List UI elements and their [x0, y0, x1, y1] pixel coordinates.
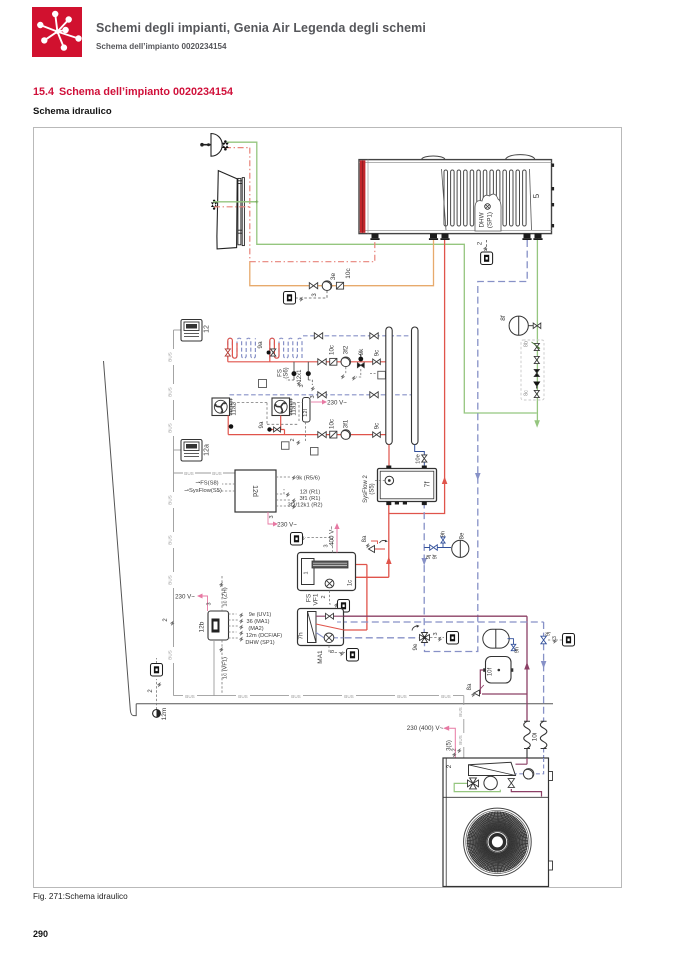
- svg-text:10c: 10c: [345, 268, 352, 279]
- svg-text:BUS: BUS: [168, 650, 173, 659]
- svg-text:BUS: BUS: [168, 387, 173, 396]
- svg-text:⇀FS(S8): ⇀FS(S8): [195, 481, 218, 487]
- outdoor circulation pump: [523, 769, 533, 779]
- pump 10c DHW circulation: [322, 281, 332, 291]
- wire green radiator branch: [213, 201, 257, 203]
- check valve 10c: [336, 282, 343, 289]
- svg-text:12b: 12b: [199, 621, 206, 632]
- circuit A blue return line: [303, 335, 412, 337]
- svg-text:1c (VF1): 1c (VF1): [223, 657, 229, 679]
- wire blue MA1 pump to 9e: [334, 637, 420, 639]
- svg-text:DHW (SP1): DHW (SP1): [245, 640, 274, 646]
- tube1 to 7f red: [388, 445, 390, 466]
- floor heating coil 9a: [228, 338, 256, 358]
- svg-text:8f: 8f: [500, 315, 507, 321]
- tank feet/stubs: [372, 234, 379, 239]
- svg-text:BUS: BUS: [168, 352, 173, 361]
- purge valve 8a: [373, 548, 386, 550]
- svg-text:7h: 7h: [298, 632, 305, 640]
- radiator panel: [217, 171, 237, 249]
- svg-text:12x1: 12x1: [297, 369, 303, 383]
- 12d left sensor wires: [218, 484, 235, 491]
- 7f flow sensor: [385, 476, 394, 485]
- eBUS horizontal to 12d: [174, 472, 236, 474]
- command box a (tank sensor): [481, 252, 493, 265]
- svg-text:3: 3: [269, 515, 275, 518]
- figure caption: [33, 892, 128, 901]
- MA1 internal pipes: [316, 615, 344, 617]
- separator tube 2: [412, 327, 419, 445]
- wire blue 7f to 9e valve: [423, 502, 425, 634]
- tank sensor cable: [486, 240, 488, 252]
- svg-text:(SP1): (SP1): [487, 212, 494, 228]
- svg-text:10e: 10e: [416, 454, 422, 464]
- valve: [534, 390, 539, 397]
- svg-text:12a: 12a: [204, 444, 211, 456]
- shower head: [200, 134, 222, 157]
- svg-text:12d: 12d: [251, 485, 258, 497]
- svg-text:3: 3: [207, 602, 213, 605]
- 12b sensor cable 1c: [221, 576, 223, 694]
- heat pump interface 7f: [386, 466, 391, 469]
- svg-text:9k: 9k: [358, 348, 365, 355]
- svg-text:3: 3: [433, 632, 439, 635]
- wire maroon condenser flow to outdoor unit: [316, 616, 527, 721]
- radiator valve: [211, 202, 217, 207]
- svg-text:(MA2): (MA2): [248, 626, 263, 632]
- radiator back tubes: [238, 178, 245, 246]
- room thermostat 12a: [174, 449, 182, 451]
- tube sensor box: [377, 370, 379, 372]
- logo: [32, 7, 82, 57]
- fan coil 11a1: [272, 398, 293, 416]
- svg-text:10f: 10f: [488, 667, 494, 676]
- wire green outdoor unit loop: [454, 783, 500, 791]
- tube2 to 7f blue with valve 10e: [415, 445, 425, 466]
- svg-text:BUS: BUS: [212, 471, 221, 476]
- svg-text:400 V~: 400 V~: [329, 526, 336, 546]
- svg-text:3f2: 3f2: [343, 345, 350, 354]
- svg-text:9c: 9c: [374, 423, 381, 430]
- fan coil control wiring: [233, 403, 303, 425]
- wire purple outdoor valve line: [511, 789, 541, 797]
- tank heat exchanger coil: [444, 170, 526, 226]
- svg-text:(S6): (S6): [284, 367, 290, 378]
- wiring centre 12b: [208, 611, 229, 640]
- svg-text:230 (400) V~: 230 (400) V~: [407, 725, 444, 732]
- wire red heat pump flow 7f riser: [317, 502, 389, 631]
- svg-text:7f: 7f: [425, 482, 432, 488]
- fan coil 11a2 connection: [227, 416, 229, 435]
- svg-text:36 (MA1): 36 (MA1): [246, 619, 269, 625]
- valve on coil 2 leg: [271, 349, 276, 356]
- svg-text:BUS: BUS: [185, 694, 194, 699]
- svg-text:(S5): (S5): [370, 483, 376, 494]
- svg-text:BUS: BUS: [184, 471, 193, 476]
- svg-text:3e: 3e: [330, 273, 337, 281]
- svg-text:8e: 8e: [460, 532, 466, 539]
- electric backup heater FS/VF1: [298, 553, 356, 591]
- svg-text:3: 3: [310, 395, 316, 398]
- eBUS vertical line: [173, 330, 175, 696]
- wall line: [104, 361, 137, 716]
- 12l control drop: [305, 422, 307, 441]
- hydraulic module MA1 (7h): [298, 609, 344, 646]
- svg-text:11a2: 11a2: [231, 402, 238, 416]
- MA1 control cable: [329, 646, 345, 653]
- header title: [96, 21, 426, 35]
- wire green cold water shower to tank: [227, 142, 537, 413]
- valve group circuit A: [318, 359, 326, 365]
- svg-text:BUS: BUS: [458, 707, 463, 716]
- svg-text:2: 2: [321, 595, 327, 598]
- valve 9j on return: [541, 636, 546, 644]
- wire pink 230V to outdoor unit: [449, 728, 455, 758]
- svg-text:9c: 9c: [374, 350, 381, 357]
- wire orange DHW warm water: [250, 240, 434, 286]
- svg-text:10c: 10c: [329, 345, 336, 355]
- expansion vessel 8e: [452, 540, 469, 557]
- fan coil 11a2: [212, 398, 233, 416]
- safety group 8b/8c box: [521, 340, 544, 400]
- svg-text:5: 5: [532, 193, 541, 198]
- eBUS drop to outdoor unit: [463, 696, 465, 758]
- svg-text:1c: 1c: [348, 580, 354, 586]
- 12b to eBUS: [213, 640, 215, 696]
- controller 12l: [303, 398, 311, 423]
- valve: [534, 356, 539, 363]
- svg-text:12l (R1): 12l (R1): [300, 490, 321, 496]
- wire blue tank coil return: [425, 240, 528, 652]
- svg-text:9e (UV1): 9e (UV1): [249, 612, 272, 618]
- command box a (12m): [151, 664, 163, 677]
- svg-text:9k (R5/6): 9k (R5/6): [296, 476, 320, 482]
- terminal square: [259, 380, 267, 388]
- page number: [33, 929, 48, 939]
- wire maroon 10f branch: [480, 670, 527, 694]
- expansion vessel (heating): [483, 629, 509, 648]
- command box a (circulation pump): [296, 291, 327, 299]
- hose 10i return: [540, 721, 547, 748]
- valve 3e: [309, 283, 317, 289]
- svg-text:8a: 8a: [467, 683, 473, 690]
- svg-text:10i: 10i: [532, 733, 539, 742]
- svg-text:FS: FS: [306, 593, 313, 602]
- svg-text:3f2/12k1 (R2): 3f2/12k1 (R2): [287, 503, 322, 509]
- radiator connection stubs: [213, 201, 257, 203]
- outdoor 3-way valve: [468, 778, 479, 789]
- shower connection valve: [222, 143, 229, 148]
- svg-text:9h: 9h: [441, 531, 447, 537]
- control unit 12d: [235, 470, 276, 512]
- fan coil 11a1 connection + valve 9a: [270, 416, 285, 435]
- svg-text:3: 3: [552, 636, 558, 639]
- circuit B red flow line: [228, 434, 386, 436]
- buffer tank 10f: [486, 657, 512, 684]
- svg-text:9a: 9a: [258, 421, 265, 428]
- 230V to 12b: [203, 596, 208, 611]
- svg-text:230 V~: 230 V~: [327, 400, 347, 407]
- svg-text:BUS: BUS: [441, 694, 450, 699]
- pink 230V to 12l: [311, 401, 322, 403]
- svg-text:BUS: BUS: [168, 575, 173, 584]
- svg-text:2: 2: [446, 764, 453, 768]
- svg-text:230 V~: 230 V~: [175, 594, 195, 601]
- svg-text:BUS: BUS: [458, 735, 463, 744]
- FS VF1 control cable: [305, 538, 333, 553]
- svg-text:9f: 9f: [433, 554, 439, 559]
- svg-text:230 V~: 230 V~: [277, 522, 297, 529]
- outdoor fan: [464, 808, 532, 876]
- svg-text:3f1: 3f1: [343, 419, 350, 428]
- tank DHW (SP1) label: [475, 194, 501, 231]
- wire green cold water main at tank: [536, 237, 538, 421]
- mixer tap 12x1 / sensor FS S6 drops: [294, 362, 308, 371]
- svg-text:3(5): 3(5): [447, 740, 453, 751]
- svg-text:3f1 (R1): 3f1 (R1): [300, 496, 321, 502]
- svg-text:12: 12: [204, 325, 211, 333]
- outdoor plate heat exchanger: [469, 762, 516, 775]
- svg-text:1c (ZH): 1c (ZH): [223, 587, 229, 606]
- svg-text:MA1: MA1: [317, 650, 324, 664]
- svg-text:12m: 12m: [161, 708, 168, 721]
- FS VF1 lower control cable: [330, 591, 333, 605]
- wire blue inside outdoor unit: [516, 758, 544, 774]
- svg-text:11a1: 11a1: [291, 402, 298, 416]
- purge valve 8a lower: [474, 690, 480, 696]
- svg-text:⇀SysFlow(S5): ⇀SysFlow(S5): [184, 488, 222, 494]
- room thermostat 12: [174, 329, 182, 331]
- svg-text:BUS: BUS: [397, 694, 406, 699]
- outdoor heat pump unit: [443, 758, 549, 887]
- valve on coil leg: [225, 349, 230, 356]
- eBUS bottom bus bar: [174, 695, 464, 697]
- check valve black: [534, 369, 539, 376]
- svg-text:9a: 9a: [257, 341, 264, 349]
- wire maroon inside outdoor unit: [516, 758, 528, 764]
- drain funnel: [533, 382, 540, 386]
- svg-text:VF1: VF1: [313, 593, 320, 605]
- svg-text:BUS: BUS: [168, 535, 173, 544]
- svg-text:8b: 8b: [524, 341, 530, 347]
- pressure reducer 8b: [534, 343, 539, 350]
- DHW tank 5: [359, 155, 554, 234]
- svg-text:10c: 10c: [329, 419, 336, 429]
- expansion vessel 8f: [509, 316, 533, 335]
- svg-text:9j: 9j: [546, 632, 552, 637]
- diverter valve 9e: [420, 633, 430, 643]
- svg-text:12l: 12l: [303, 409, 309, 417]
- circuit A red flow line: [228, 361, 386, 363]
- outdoor sensor 12m: [156, 679, 158, 710]
- svg-text:9j: 9j: [426, 555, 432, 560]
- wire red tank coil flow riser: [389, 240, 445, 514]
- 12b relay wires: [229, 614, 239, 638]
- 12d right relay wires: [276, 477, 290, 506]
- floor line: [136, 703, 553, 705]
- outdoor compressor: [484, 776, 497, 789]
- 400V supply: [336, 529, 338, 553]
- 12d 230V supply: [268, 512, 273, 524]
- svg-text:BUS: BUS: [168, 423, 173, 432]
- svg-text:9h: 9h: [515, 647, 521, 653]
- outdoor valve: [508, 779, 514, 788]
- svg-text:12m (DCF/AF): 12m (DCF/AF): [246, 633, 282, 639]
- circuit B blue return line: [230, 394, 412, 396]
- valve group 9j 9h: [424, 547, 451, 549]
- separator tube 1: [386, 327, 392, 445]
- svg-text:SysFlow 2: SysFlow 2: [363, 475, 369, 503]
- svg-text:BUS: BUS: [238, 694, 247, 699]
- wire red dash-dot DHW circulation: [214, 148, 375, 262]
- svg-text:9e: 9e: [412, 643, 419, 650]
- svg-text:8a: 8a: [362, 535, 368, 542]
- svg-text:BUS: BUS: [344, 694, 353, 699]
- terminal square: [378, 371, 386, 379]
- svg-text:BUS: BUS: [168, 495, 173, 504]
- svg-text:2: 2: [290, 438, 296, 441]
- figure frame: [34, 128, 622, 888]
- svg-text:1: 1: [304, 571, 310, 574]
- hose 10i flow: [524, 721, 531, 763]
- svg-text:3: 3: [330, 650, 336, 653]
- svg-text:8c: 8c: [524, 390, 530, 396]
- svg-text:3: 3: [299, 384, 305, 387]
- svg-text:DHW: DHW: [479, 212, 486, 227]
- wire blue return to outdoor unit: [340, 622, 544, 721]
- svg-text:BUS: BUS: [291, 694, 300, 699]
